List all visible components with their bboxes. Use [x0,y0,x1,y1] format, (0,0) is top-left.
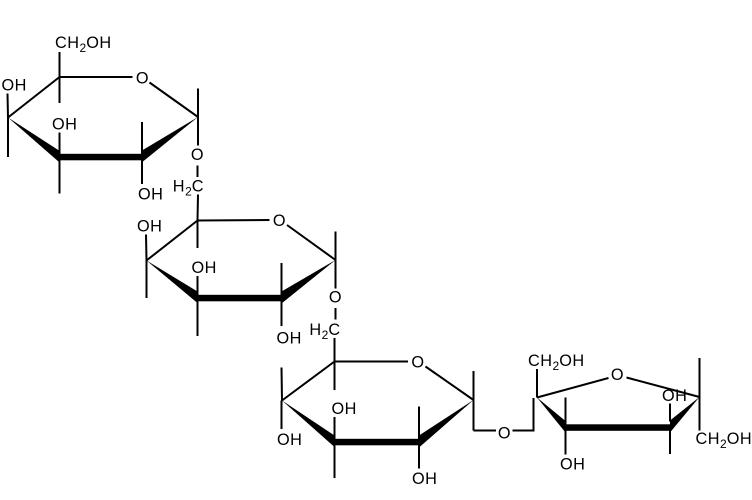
bond C3-C4 front wedge [282,401,335,448]
bond C5-O5 [198,219,270,222]
ring 1: galactose unit (top left) [2,34,199,204]
svg-text:O: O [411,353,424,371]
bond C3-OH below [565,431,567,455]
svg-text:O: O [191,146,204,164]
H tick above C2 [281,263,283,298]
H tick below C4 [669,431,671,455]
bond C1-C2 front wedge [282,260,336,304]
H tick above C4 [281,368,284,401]
bond C1-C2 front wedge [419,400,474,448]
bond C2-C3 bold front edge [335,439,420,446]
svg-text:OH: OH [192,259,217,277]
bond C5-CH2OH [59,52,61,77]
H tick below C5 [59,77,61,103]
H tick below C3 [334,442,336,478]
bond C5-O5 [335,361,409,363]
bond C2-OH [141,157,143,184]
ring 2: galactose unit (middle) [137,212,336,348]
bond C4-OH [145,235,148,261]
H tick below C4 [7,118,9,158]
bond O-CH2 horizontal [513,430,535,432]
svg-text:O: O [273,212,286,230]
bond C1-C2 front wedge [142,117,198,162]
bond C4-C5 [8,77,60,118]
bond C4-C5 [282,362,335,401]
H tick below C3 [59,157,61,194]
svg-text:O: O [136,70,149,88]
svg-text:OH: OH [560,456,585,474]
bond C1 down to glycosidic O [473,400,475,431]
bond C4-C5 [147,221,198,261]
svg-text:OH: OH [2,77,27,95]
svg-text:OH: OH [662,387,687,405]
svg-text:OH: OH [412,470,437,488]
bond C3-OH [197,276,199,298]
bond C2-C3 bold front edge [59,154,142,161]
bond O5-C1 [426,367,474,401]
svg-text:OH: OH [332,400,357,418]
svg-text:O: O [611,366,624,384]
H tick above C1 [197,89,199,118]
bond C2-OH [418,442,420,469]
svg-text:OH: OH [137,218,162,236]
bond C4-OH below [281,401,283,430]
ring 4: fructofuranose unit (bottom right) [528,352,752,474]
bond C2-CH2OH [536,369,538,398]
bond C3-OH [334,417,336,442]
bond up to fructose C2 [533,398,535,431]
bond C4-C5 front wedge [670,397,700,433]
ring 3: glucose unit (bottom middle) [277,353,474,488]
svg-text:OH: OH [52,116,77,134]
bond C4-OH [7,94,10,118]
bond O-C5 [627,378,700,398]
H tick below C5 [334,362,336,391]
bond C3-C4 front wedge [8,118,59,163]
bond O-CH2 [335,308,337,320]
bond C3-C4 bold front edge [565,424,671,431]
bond C5-C6 [699,397,701,431]
bond C2-OH [281,298,283,326]
bond C2-C3 bold front edge [198,295,282,302]
glycosidic linkage ring2-ring3 [309,289,342,362]
glycosidic linkage ring3-ring4 [474,398,535,443]
H tick above C2 [141,122,143,157]
bond C1-O glycosidic [335,260,337,289]
bond C2-C3 front wedge [537,398,566,433]
bond C5-O5 [60,76,133,78]
svg-text:OH: OH [277,330,302,348]
bond C3-OH [59,133,61,158]
bond C2-O ring [537,378,609,398]
svg-text:O: O [329,289,342,307]
bond CH2-C5 [197,195,200,221]
bond O5-C1 [287,225,336,260]
svg-text:O: O [498,425,511,443]
bond C4-OH [669,404,671,422]
bond O5-C1 [150,83,199,118]
bond C3-C4 front wedge [147,261,198,304]
bond CH2-C5 [334,338,336,362]
H tick above C1 [473,371,475,400]
H tick below C3 [197,298,199,336]
H tick above C1 [335,232,337,261]
bond O-CH2 [197,166,199,178]
H tick above C3 [565,398,567,425]
H tick above C2 [418,407,420,443]
svg-text:OH: OH [277,431,302,449]
H tick below C4 [146,261,148,299]
glycosidic linkage ring1-ring2 [173,146,204,221]
svg-text:OH: OH [138,186,163,204]
bond C1-O horizontal [474,430,497,432]
bond C1-O glycosidic [197,117,199,146]
H tick below C5 [197,221,199,249]
H tick above C5 [699,358,701,397]
